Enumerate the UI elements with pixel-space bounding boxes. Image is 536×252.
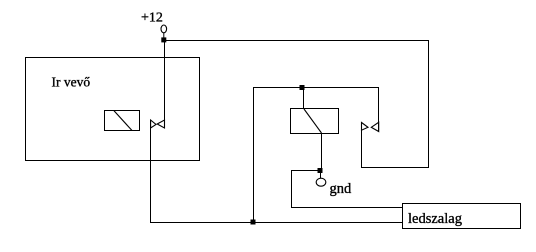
wire right rail vertical bbox=[428, 40, 430, 168]
node junction bottom rail bbox=[251, 220, 256, 225]
wire terminal stub bbox=[163, 33, 165, 39]
wire relay K2 top pin bbox=[303, 88, 305, 109]
wire gnd loop left horizontal bbox=[291, 170, 321, 172]
node junction relay feed bbox=[300, 85, 305, 90]
wire bottom rail horizontal bbox=[150, 222, 403, 224]
relay K1 coil body bbox=[105, 111, 140, 131]
wire top rail horizontal bbox=[165, 40, 429, 42]
wire middle top horizontal bbox=[253, 87, 379, 89]
wire relay K2 bottom pin bbox=[321, 134, 323, 172]
node junction at +12 rail bbox=[161, 37, 166, 42]
terminal gnd bbox=[316, 178, 326, 186]
node junction gnd bbox=[318, 168, 323, 173]
svg-text:Ir vevő: Ir vevő bbox=[52, 75, 91, 90]
relay K1 diagonal bbox=[114, 111, 132, 131]
box ledszalag bbox=[403, 204, 521, 229]
wire gnd stub bbox=[320, 171, 322, 178]
wire D1 down to bottom rail bbox=[150, 120, 152, 223]
wire right diode feed vertical bbox=[378, 87, 380, 132]
wire +12 drop vertical bbox=[164, 40, 166, 128]
wire right diode D2 cathode lead bbox=[361, 130, 363, 168]
diode D2 arrow left-pointing bbox=[371, 122, 378, 131]
wire gnd loop vertical bbox=[291, 170, 293, 208]
svg-text:+12: +12 bbox=[141, 11, 163, 26]
wire middle-left rail vertical bbox=[253, 87, 255, 222]
relay K2 diagonal bbox=[304, 109, 322, 133]
svg-text:gnd: gnd bbox=[330, 181, 353, 197]
wire gnd loop to ledszalag horizontal bbox=[291, 207, 403, 209]
diode D1 arrow left-pointing bbox=[157, 120, 164, 128]
diode D2 arrow right-pointing bbox=[362, 123, 369, 131]
diode D1 arrow right-pointing bbox=[151, 120, 156, 128]
box Ir vevo bbox=[26, 58, 200, 161]
svg-text:ledszalag: ledszalag bbox=[408, 211, 462, 227]
terminal +12 bbox=[161, 25, 167, 33]
wire bottom-right horizontal bbox=[361, 167, 429, 169]
relay K2 coil body bbox=[291, 109, 339, 134]
